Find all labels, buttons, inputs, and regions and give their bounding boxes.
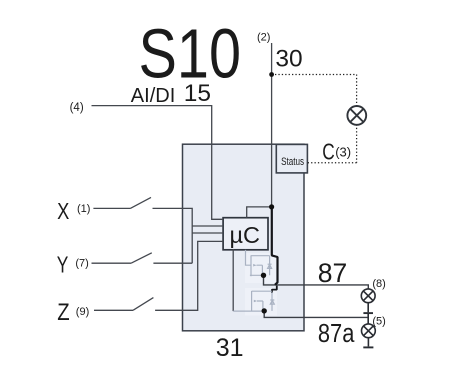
svg-text:Status: Status: [281, 156, 304, 168]
svg-text:(9): (9): [76, 306, 89, 318]
svg-text:Z: Z: [57, 299, 69, 326]
svg-text:Y: Y: [57, 251, 69, 277]
svg-text:µC: µC: [230, 222, 261, 248]
svg-text:AI/DI: AI/DI: [131, 85, 176, 107]
svg-text:(2): (2): [257, 31, 270, 43]
svg-text:(8): (8): [372, 278, 385, 290]
svg-text:(4): (4): [70, 102, 84, 114]
svg-text:87: 87: [318, 258, 348, 288]
svg-text:X: X: [57, 198, 69, 224]
svg-text:(3): (3): [335, 144, 351, 159]
svg-text:15: 15: [184, 80, 211, 107]
svg-text:87a: 87a: [318, 320, 355, 348]
svg-text:30: 30: [275, 45, 302, 72]
svg-text:31: 31: [216, 334, 244, 362]
svg-text:(1): (1): [77, 203, 90, 215]
svg-text:(7): (7): [75, 258, 88, 270]
svg-text:(5): (5): [372, 315, 385, 327]
svg-text:C: C: [322, 139, 335, 165]
